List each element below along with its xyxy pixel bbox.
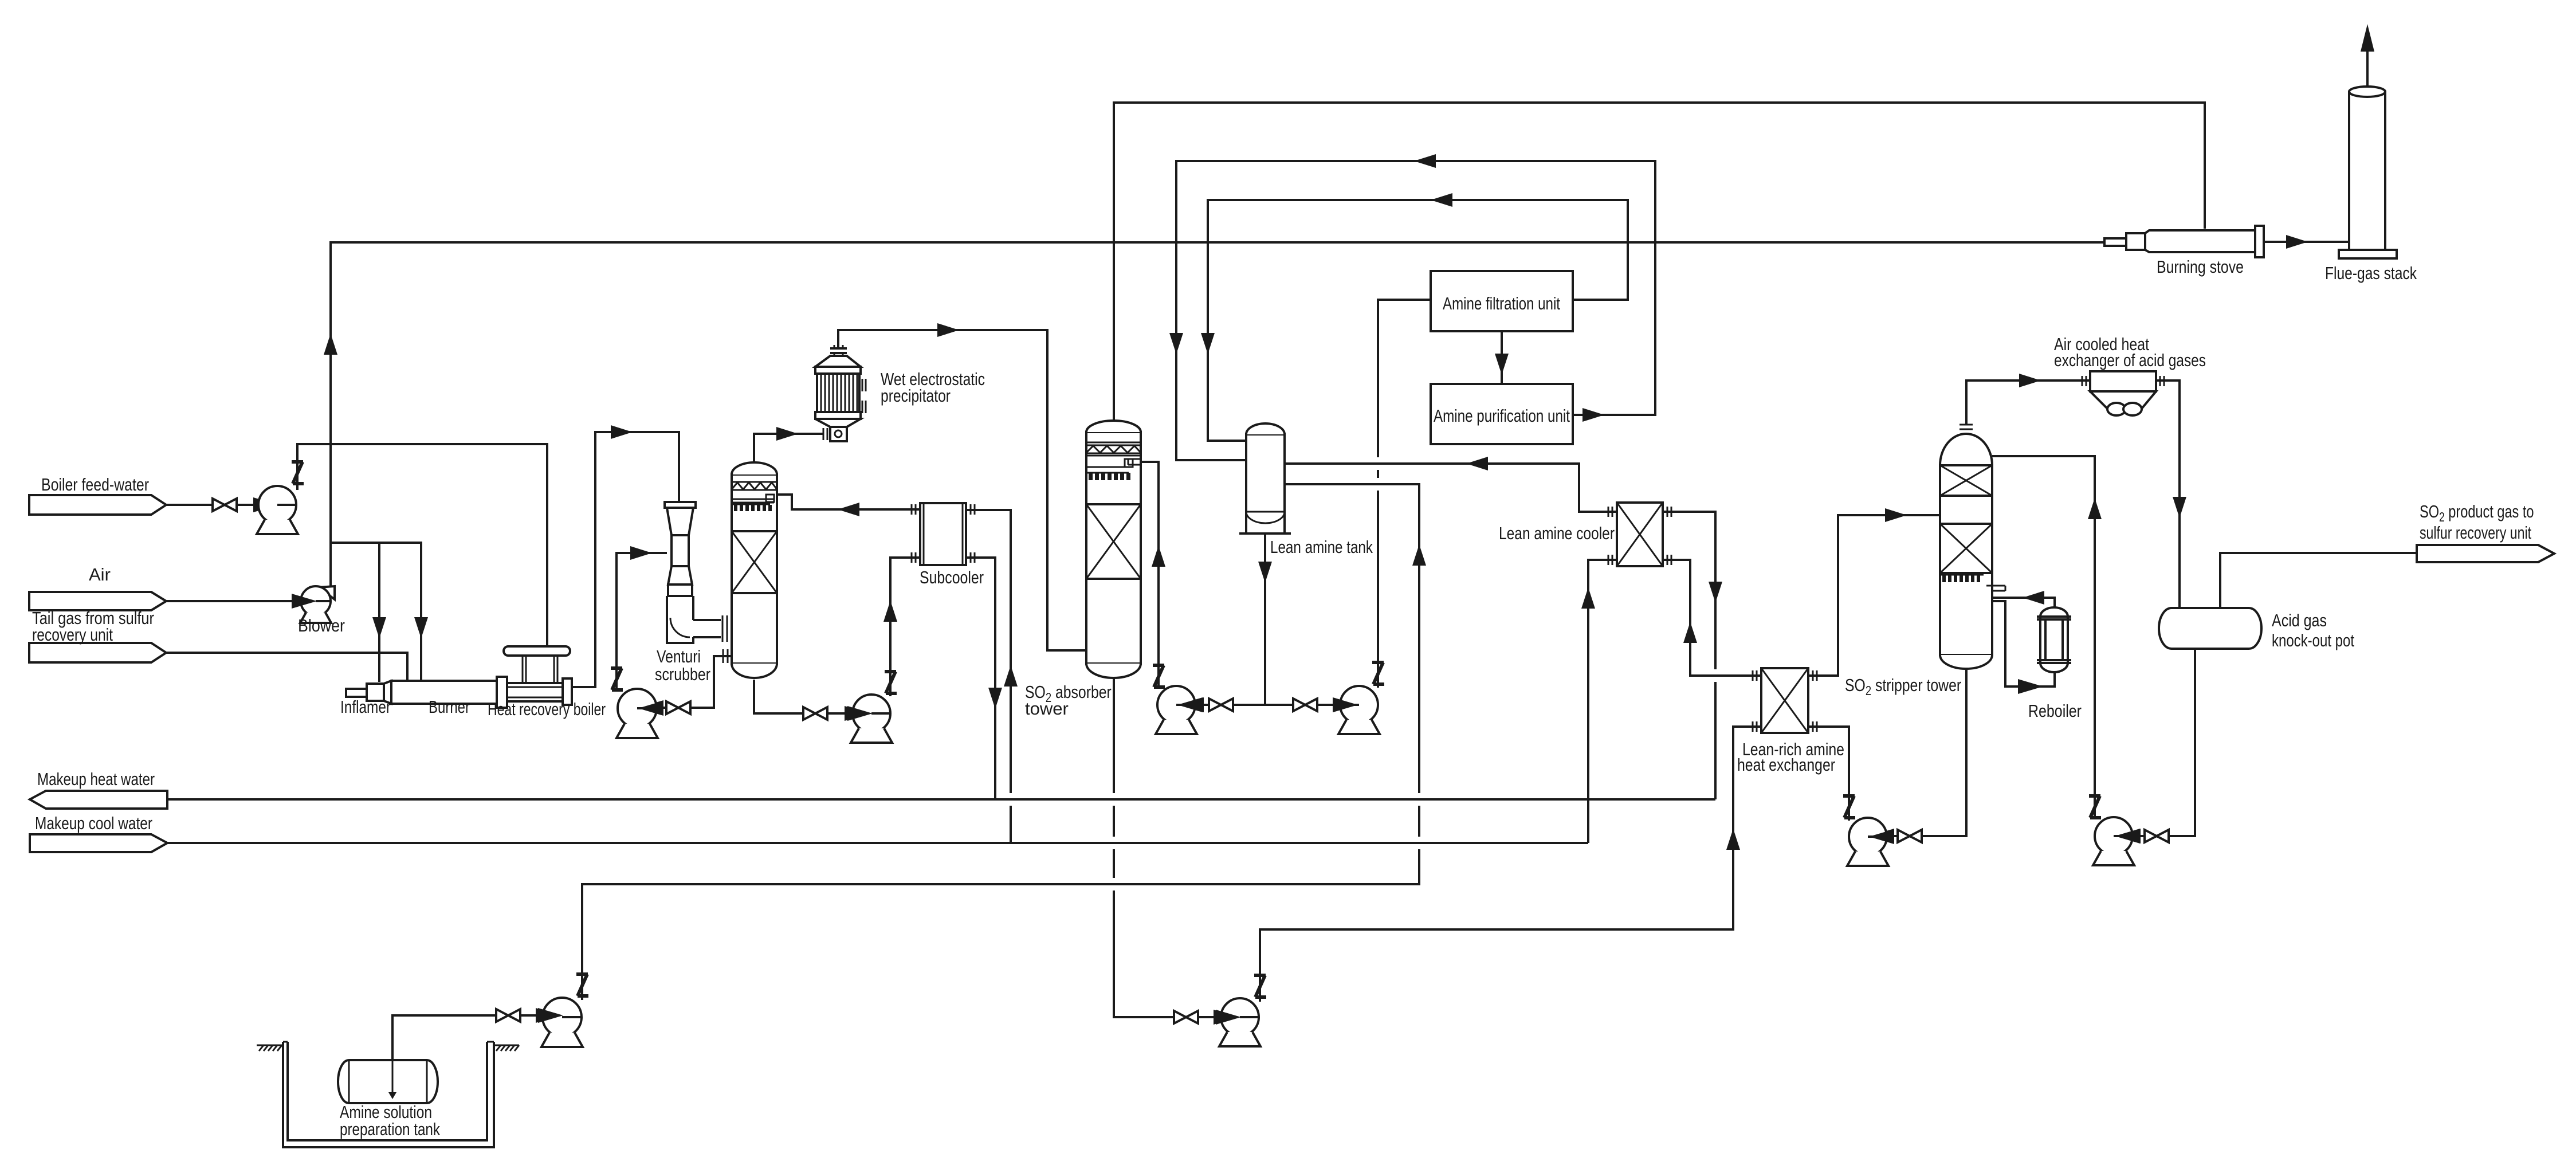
absorber tray teeth <box>1089 473 1130 480</box>
arrow up absorber feed riser <box>1152 546 1165 567</box>
stripper tray teeth <box>1942 575 1980 582</box>
stripper reboiler stub <box>1986 586 2005 591</box>
svg-text:Makeup heat water: Makeup heat water <box>37 769 155 789</box>
pipe subcooler warm water return <box>966 558 995 799</box>
arrow left purification return <box>1414 154 1436 168</box>
svg-text:tower: tower <box>1025 699 1069 719</box>
pipe filtration to purification <box>1501 331 1503 384</box>
venturi bottom body <box>667 596 693 643</box>
lean amine tank base <box>1239 532 1291 535</box>
pipe scrubber bottoms to subcooler pump <box>754 680 869 713</box>
venturi converging cone <box>667 508 693 535</box>
burning stove coupling <box>2126 233 2145 250</box>
valve V1 bfw <box>213 499 237 511</box>
reboiler shell <box>2037 607 2071 672</box>
pump P1 bfw <box>257 486 298 534</box>
stripper packing X section upper <box>1940 465 1992 496</box>
subcooler flanges <box>912 504 975 563</box>
arrow right into subcooler pump <box>845 706 870 721</box>
zigzag venturi circ discharge <box>611 668 623 690</box>
heat recovery boiler body <box>507 683 563 701</box>
svg-text:preparation tank: preparation tank <box>340 1119 440 1139</box>
wesp top band <box>815 367 861 374</box>
arrow up cool water riser <box>1004 665 1018 687</box>
stripper top nozzle flange <box>1960 425 1973 429</box>
pipe subcooler cool water riser <box>966 510 1011 843</box>
air cooled exchanger fans <box>2107 403 2142 415</box>
zigzag rich pump discharge <box>1254 975 1266 997</box>
svg-text:Burning stove: Burning stove <box>2157 257 2244 277</box>
valve V3 scrubber bottoms <box>803 707 827 720</box>
svg-text:Boiler feed-water: Boiler feed-water <box>41 474 149 495</box>
svg-text:SO2 stripper tower: SO2 stripper tower <box>1845 675 1961 698</box>
arrow down air branch left <box>372 617 386 638</box>
absorber top line <box>1086 442 1141 444</box>
svg-text:Flue-gas stack: Flue-gas stack <box>2325 263 2417 283</box>
stripper packing X section lower <box>1940 524 1992 573</box>
valve V7 prep pump suction <box>496 1009 520 1022</box>
arrow left into reflux pump <box>2115 829 2141 844</box>
pipe prep tank suction <box>392 1015 560 1098</box>
burning stove rod <box>2104 238 2126 246</box>
absorber demister band <box>1086 445 1141 453</box>
stream flag Makeup heat water <box>30 791 167 809</box>
arrow left filtration return <box>1431 193 1452 207</box>
pipe air main to stove <box>331 242 2106 589</box>
burning stove end plate <box>2255 226 2264 257</box>
pipe makeup heat water header <box>167 798 1715 801</box>
stripper bottom dome <box>1940 655 1992 669</box>
arrow into venturi circ pump <box>638 700 663 715</box>
stream flag Air <box>29 592 166 610</box>
svg-text:Lean amine cooler: Lean amine cooler <box>1499 523 1615 543</box>
pipe purification unit return to tank <box>1176 161 1655 460</box>
pipe air branch header <box>331 543 421 682</box>
lean amine cooler <box>1617 503 1663 566</box>
arrow into bfw pump <box>253 497 278 512</box>
burning stove tube <box>2145 230 2255 252</box>
pipe exchanger rich to stripper <box>1808 515 1940 676</box>
arrow right reboiler liquid <box>2018 679 2043 694</box>
arrow right into prep pump <box>536 1008 561 1023</box>
air cooled exchanger hopper <box>2090 391 2156 409</box>
flue-gas stack base <box>2339 250 2397 258</box>
arrow into blower <box>292 594 317 609</box>
arrow up lean to cooler <box>1683 622 1697 643</box>
pipe amine prep pump to tank makeup <box>582 484 1419 1000</box>
venturi lower spool <box>668 584 692 596</box>
svg-text:recovery unit: recovery unit <box>32 625 113 645</box>
svg-text:Makeup cool water: Makeup cool water <box>35 813 152 833</box>
svg-text:knock-out pot: knock-out pot <box>2272 630 2354 650</box>
arrow left subcooler to scrubber <box>838 503 859 516</box>
svg-text:Acid gas: Acid gas <box>2272 610 2327 630</box>
lean-rich amine heat exchanger <box>1761 668 1808 733</box>
pump P8 stripper lean <box>1847 818 1894 866</box>
flue-gas stack body <box>2349 92 2385 250</box>
arrow down cooler warm water <box>1709 582 1722 603</box>
pipe air cooler outlet to knockout pot <box>2156 380 2180 608</box>
arrow down filtration to purification <box>1495 354 1509 375</box>
arrow down tank bottoms <box>1258 562 1272 583</box>
svg-text:SO2 product gas to: SO2 product gas to <box>2420 501 2534 525</box>
arrow right into venturi waist <box>630 546 652 560</box>
wesp bottom cone <box>815 419 861 427</box>
amine prep pit walls <box>283 1042 494 1147</box>
pipe boiler outlet to venturi top <box>572 432 679 687</box>
pump P5 filtration feed <box>1333 686 1380 734</box>
scrubber bottom dome <box>732 664 777 678</box>
pipe makeup cool water header <box>167 842 1588 844</box>
pipe subcooler pump discharge <box>890 558 920 696</box>
air cooled exchanger body <box>2090 371 2156 391</box>
pump P9 reflux <box>2093 817 2140 865</box>
burner cone <box>384 681 391 704</box>
pipe air branch left <box>378 543 380 682</box>
arrow right into filtration feed pump <box>1333 697 1358 712</box>
zigzag prep pump discharge <box>576 974 588 996</box>
prep tank dip tube <box>392 1060 394 1095</box>
svg-text:Subcooler: Subcooler <box>920 567 984 587</box>
wesp hatched shell <box>817 374 859 412</box>
stripper dome <box>1940 434 1992 465</box>
arrow right purification outlet <box>1582 408 1604 422</box>
stripper column body <box>1940 465 1992 655</box>
lean-rich exchanger flanges <box>1753 670 1817 732</box>
subcooler body <box>920 503 966 565</box>
svg-text:Burner: Burner <box>429 697 470 717</box>
pump P7 amine prep <box>538 998 583 1047</box>
absorber feed pipe internal <box>1086 459 1141 473</box>
venturi internal elbow <box>670 618 690 637</box>
flue-gas stack top ellipse <box>2349 87 2385 97</box>
acid gas knock-out pot <box>2159 608 2261 649</box>
scrubber dome <box>732 462 777 474</box>
lean amine tank body <box>1246 434 1285 533</box>
pipe WESP outlet to absorber <box>838 330 1086 650</box>
arrow up cool water to cooler <box>1581 587 1595 609</box>
pipe venturi circulation suction <box>638 656 732 708</box>
lean amine tank dome <box>1246 423 1285 434</box>
arrow up air main <box>324 334 337 355</box>
scrubber bottoms nozzle flange <box>723 649 728 663</box>
pipe absorber overhead to burning stove <box>1114 103 2205 420</box>
pump P2 venturi circulation <box>616 689 663 738</box>
svg-text:Lean amine tank: Lean amine tank <box>1270 537 1373 557</box>
absorber band line <box>1086 455 1141 457</box>
arrow left reboiler vapor <box>2023 591 2044 605</box>
absorber column body <box>1086 432 1141 664</box>
arrow down cooled acid gas <box>2173 497 2186 518</box>
pipe stripper overhead to air cooler <box>1966 380 2090 424</box>
arrow left into absorber feed pump <box>1179 697 1204 712</box>
boiler drum legs <box>523 656 557 683</box>
pipe air flag to blower <box>166 600 309 602</box>
arrow right rich to stripper <box>1885 508 1907 522</box>
arrow down air branch right <box>414 617 428 638</box>
wesp bottom band <box>815 412 861 419</box>
pipe venturi circ pump discharge <box>616 553 667 691</box>
venturi throat <box>672 535 689 566</box>
stream flag Tail gas <box>29 643 166 662</box>
svg-text:Amine purification unit: Amine purification unit <box>1434 406 1570 426</box>
arrow up rich riser <box>1726 829 1740 850</box>
pipe filtration unit return to tank <box>1208 200 1628 441</box>
arrow down warm water return <box>988 688 1002 709</box>
venturi top flange <box>665 502 696 508</box>
burner tube <box>391 681 497 704</box>
amine solution preparation tank <box>338 1060 438 1103</box>
scrubber column body <box>732 474 777 664</box>
pipe lean amine tank bottom header <box>1179 533 1357 705</box>
zigzag bfw discharge <box>292 462 304 484</box>
wesp inlet flange <box>823 428 827 440</box>
venturi diffuser <box>668 566 692 584</box>
absorber packing X section <box>1086 504 1141 579</box>
arrow up stack vent <box>2361 24 2374 52</box>
stream flag SO2 product <box>2417 545 2554 562</box>
arrow right scrubber to WESP <box>776 427 798 441</box>
pipe stripper bottoms to lean pump <box>1870 669 1966 836</box>
valve V6 rich amine pump suction <box>1174 1011 1198 1023</box>
inflamer rod <box>346 689 367 697</box>
boiler end block <box>563 678 572 705</box>
zigzag reflux discharge <box>2089 796 2101 818</box>
pipe stove outlet to stack <box>2264 241 2349 243</box>
pipe subcooler to scrubber spray <box>777 495 920 509</box>
flange venturi circ nozzle <box>723 649 728 663</box>
pipe boiler feed-water suction <box>166 504 261 506</box>
pipe rich pump discharge to exchanger <box>1260 727 1761 1002</box>
arrow down filtration return drop <box>1201 333 1215 354</box>
lean amine tank dished bottom <box>1246 512 1285 523</box>
amine filtration unit box <box>1431 271 1573 331</box>
pipe stack vent <box>2366 49 2369 91</box>
zigzag lean pump discharge <box>1843 796 1855 818</box>
svg-text:sulfur recovery unit: sulfur recovery unit <box>2420 523 2531 543</box>
scrubber demister band <box>732 482 777 490</box>
pipe reboiler liquid draw <box>1992 601 2055 687</box>
pump P6 rich amine <box>1216 998 1260 1046</box>
pipe absorber lean feed riser <box>1141 462 1159 688</box>
svg-text:Venturi: Venturi <box>657 646 701 666</box>
pipe bfw pump discharge to steam drum <box>297 444 547 646</box>
ground line left of pit <box>257 1045 283 1051</box>
arrow right WESP outlet <box>937 323 959 337</box>
pipe scrubber top to WESP <box>754 434 823 462</box>
valve V8 lean pump suction <box>1898 830 1922 842</box>
svg-text:Blower: Blower <box>298 615 345 636</box>
pipe reflux pump discharge to stripper top <box>1992 456 2095 819</box>
lean amine cooler flanges <box>1608 507 1671 565</box>
scrubber packing X section <box>732 531 777 593</box>
pipe reboiler vapor return <box>1992 598 2055 608</box>
valve V4 absorber feed pump suction <box>1209 699 1233 711</box>
pipe lean pump discharge to exchanger <box>1808 727 1849 821</box>
svg-text:Inflamer: Inflamer <box>340 697 391 717</box>
wesp drain box <box>830 427 847 441</box>
svg-text:Air: Air <box>89 564 111 584</box>
burner flange plate <box>497 677 507 708</box>
arrow up reflux riser <box>2088 498 2102 519</box>
svg-text:exchanger of acid gases: exchanger of acid gases <box>2054 350 2206 370</box>
pipe cool water to lean amine cooler <box>1588 560 1617 843</box>
valve V2 venturi circulation <box>666 701 690 714</box>
amine purification unit box <box>1431 384 1573 444</box>
svg-text:scrubber: scrubber <box>655 664 710 684</box>
pipe exchanger lean to cooler <box>1663 560 1761 676</box>
arrow up makeup riser <box>1412 544 1426 566</box>
scrubber tray teeth <box>734 505 772 511</box>
pump P4 absorber feed <box>1156 686 1203 734</box>
stream flag Boiler feed-water <box>29 495 166 515</box>
pipe SO2 product from pot <box>2220 553 2417 608</box>
wesp top cone <box>815 356 861 367</box>
blower <box>300 586 335 623</box>
valve V9 reflux pump suction <box>2145 830 2169 842</box>
svg-text:Heat recovery boiler: Heat recovery boiler <box>488 699 606 719</box>
wesp side nozzles <box>862 379 866 413</box>
absorber bottom dome <box>1086 664 1141 678</box>
pump P3 subcooler feed <box>847 695 892 743</box>
pipe tail gas to burner <box>166 653 407 682</box>
stripper tray line <box>1940 574 1984 576</box>
venturi outlet pipe to column <box>693 620 721 637</box>
arrow left into lean pump <box>1869 829 1894 844</box>
valve V5 filtration pump suction <box>1293 699 1317 711</box>
absorber dome <box>1086 421 1141 432</box>
zigzag absorber feed riser <box>1153 665 1165 687</box>
pipe crossing gaps <box>1003 457 1723 891</box>
arrow down purification return drop <box>1169 333 1183 354</box>
arrow right into rich pump <box>1214 1010 1239 1025</box>
inflamer box <box>367 684 384 701</box>
wesp top nozzle <box>830 345 847 356</box>
flange venturi outlet <box>722 615 727 642</box>
arrow left lean amine to tank <box>1466 457 1488 470</box>
air cooled exchanger flanges <box>2082 376 2164 386</box>
pipe filtration feed pump discharge <box>1378 300 1431 688</box>
pipe pot bottoms to reflux pump <box>2116 649 2195 836</box>
arrow right boiler outlet <box>611 425 633 439</box>
svg-text:heat exchanger: heat exchanger <box>1737 755 1835 775</box>
zigzag filtration feed discharge <box>1372 662 1384 684</box>
svg-text:Amine filtration unit: Amine filtration unit <box>1443 293 1560 313</box>
arrow right stripper overhead <box>2019 374 2041 387</box>
svg-text:Reboiler: Reboiler <box>2028 701 2082 721</box>
pipe cooler lean amine to tank <box>1285 464 1617 512</box>
boiler steam drum <box>504 646 570 656</box>
svg-text:precipitator: precipitator <box>881 386 951 406</box>
scrubber spray tray <box>732 495 774 504</box>
arrow right stove to stack <box>2286 235 2308 249</box>
stream flag Makeup cool water <box>30 834 167 852</box>
zigzag subcooler pump discharge <box>885 672 897 693</box>
arrow up subcooler feed <box>883 601 897 622</box>
ground line right of pit <box>494 1045 519 1051</box>
pipe cooler warm water out <box>1663 512 1715 799</box>
pipe absorber bottoms to rich pump <box>1114 677 1238 1017</box>
